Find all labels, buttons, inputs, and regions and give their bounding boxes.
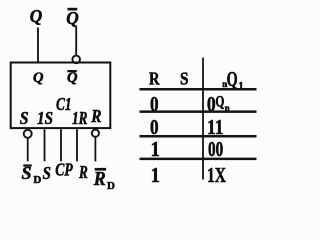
table rule under row 2: [140, 135, 257, 138]
svg-text:R: R: [78, 162, 88, 182]
svg-text:1X: 1X: [207, 163, 226, 187]
svg-text:S: S: [180, 69, 189, 89]
table rule under header: [140, 88, 257, 91]
svg-text:Q: Q: [66, 8, 79, 28]
svg-text:S: S: [43, 163, 52, 183]
inversion bubble on R-direct input: [92, 130, 99, 137]
svg-text:S: S: [20, 108, 29, 128]
inversion bubble on Q-bar output: [72, 56, 80, 64]
svg-text:1: 1: [151, 137, 160, 161]
svg-text:C1: C1: [56, 94, 72, 114]
table rule under row 3: [140, 158, 257, 161]
svg-text:Q: Q: [30, 6, 43, 26]
wire 1R input: [76, 129, 78, 161]
svg-text:R: R: [93, 168, 106, 190]
svg-text:1R: 1R: [72, 108, 88, 128]
wire 1S input: [44, 129, 46, 161]
inversion bubble on S-direct input: [24, 130, 32, 138]
svg-text:Q: Q: [215, 94, 224, 111]
table rule under row 1: [140, 110, 257, 113]
svg-text:00: 00: [208, 137, 223, 161]
label Q-bar (top, outside): [66, 8, 79, 28]
svg-text:D: D: [33, 174, 41, 186]
svg-text:CP: CP: [55, 160, 73, 180]
wire S-direct input: [27, 138, 29, 161]
svg-text:1S: 1S: [37, 108, 53, 128]
wire R-direct input: [94, 137, 96, 161]
row 1 next-state Qn: [215, 94, 229, 114]
svg-text:1: 1: [151, 163, 160, 187]
label S-bar-D (bottom): [22, 163, 42, 186]
wire Q-bar output: [75, 27, 77, 56]
flip-flop body U1: [11, 63, 111, 129]
table header Q n+1: [222, 67, 243, 92]
pin label Q-bar (inside box): [67, 70, 78, 86]
wire Q output: [37, 28, 39, 63]
truth table column divider (vertical rule): [202, 58, 204, 180]
svg-text:R: R: [149, 69, 160, 89]
label R-bar-D (bottom): [93, 168, 115, 192]
wire CP clock input: [60, 129, 62, 161]
svg-text:Q: Q: [33, 70, 44, 86]
svg-text:D: D: [107, 180, 115, 190]
svg-text:Q: Q: [67, 70, 78, 86]
svg-text:R: R: [90, 106, 101, 126]
svg-text:Q: Q: [227, 67, 238, 91]
